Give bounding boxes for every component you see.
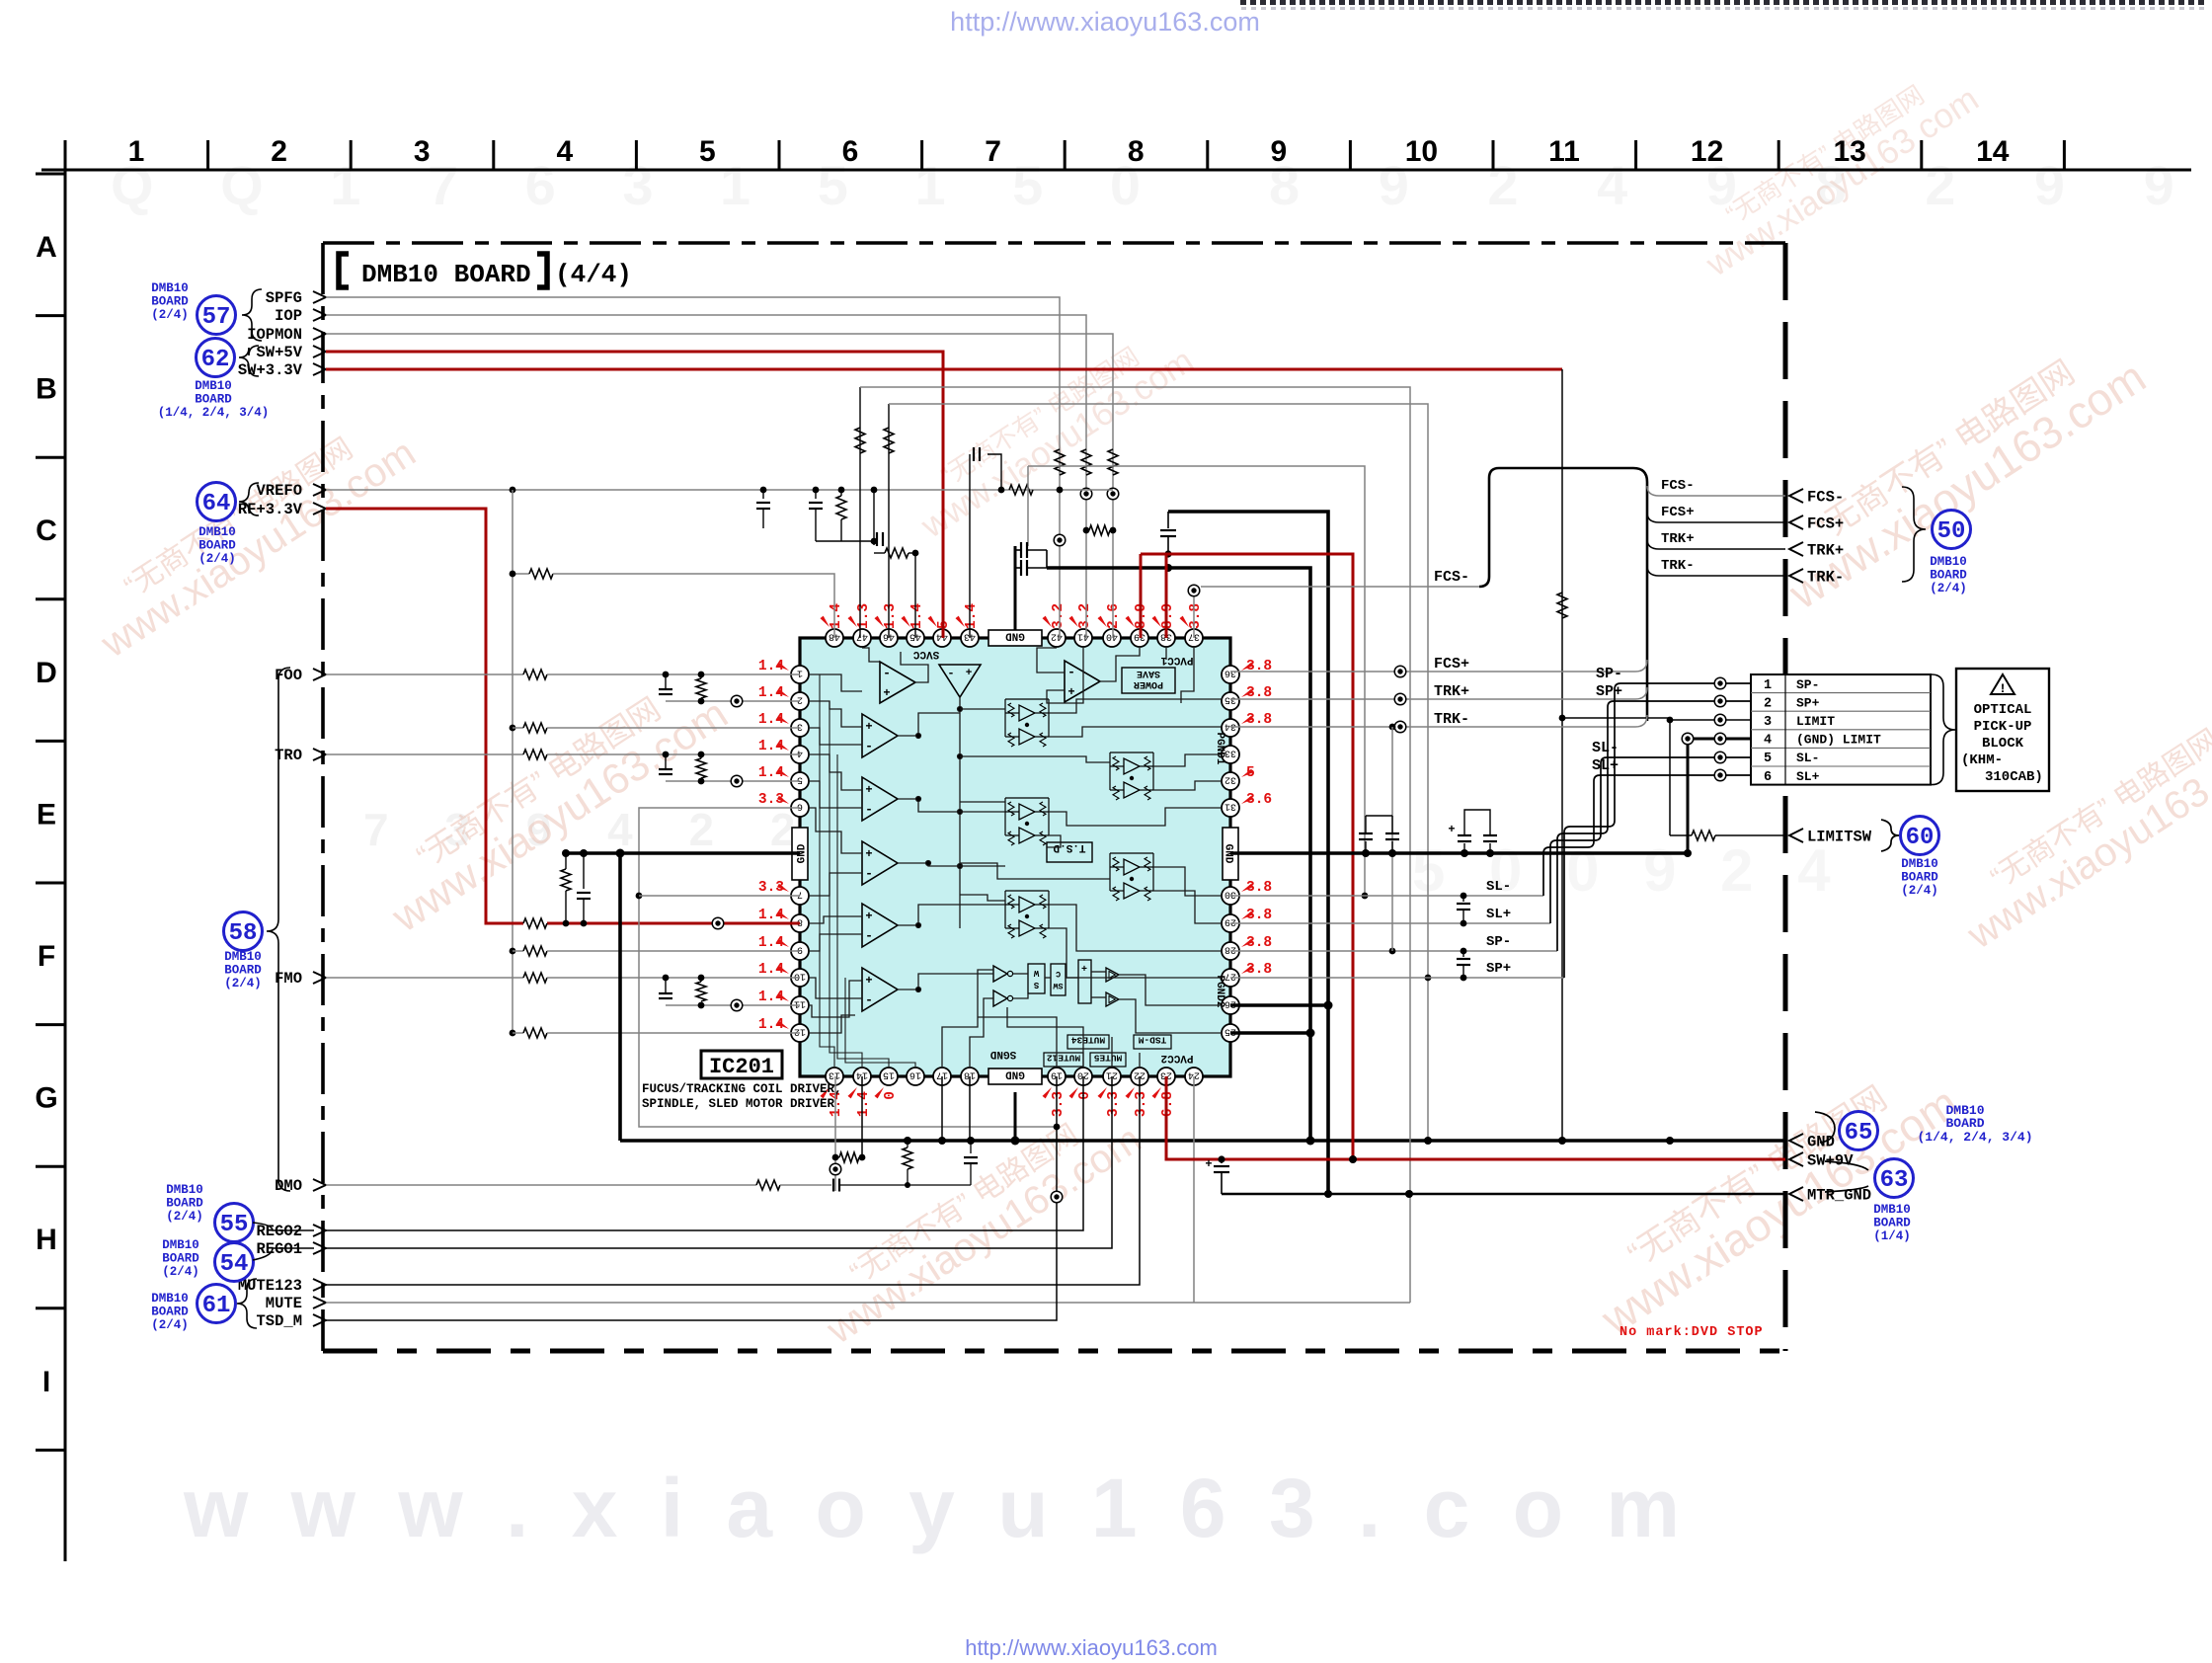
svg-text:A: A	[36, 231, 57, 264]
svg-text:5 0 0 9 2 4: 5 0 0 9 2 4	[1412, 837, 1845, 904]
svg-text:1: 1	[128, 135, 145, 168]
svg-text:0: 0	[883, 1091, 899, 1100]
svg-text:16: 16	[909, 1069, 921, 1080]
svg-text:PGND1: PGND1	[1214, 732, 1225, 764]
pin 15	[880, 1068, 898, 1085]
svg-text:PGND2: PGND2	[1214, 975, 1225, 1007]
svg-text:TRK-: TRK-	[1434, 711, 1469, 728]
svg-text:(2/4): (2/4)	[162, 1265, 199, 1279]
svg-text:SP+: SP+	[1486, 961, 1511, 977]
heavy bus y518	[1168, 512, 1328, 1194]
svg-text:2: 2	[1764, 696, 1772, 711]
pin 10	[791, 969, 809, 987]
svg-text:0: 0	[1077, 1091, 1093, 1100]
board outline DMB10 BOARD dash-dot border	[323, 243, 1785, 1351]
svg-text:6: 6	[797, 801, 803, 812]
svg-text:60: 60	[1906, 825, 1935, 851]
switch blocks SW	[1028, 960, 1091, 1003]
svg-text:SL-: SL-	[1486, 879, 1511, 895]
svg-text:IC201: IC201	[709, 1055, 774, 1079]
wire y409 run	[889, 404, 1428, 1141]
svg-text:58: 58	[229, 920, 258, 947]
pin 34	[1222, 719, 1239, 737]
pin 44	[933, 629, 951, 647]
inverter gates	[993, 966, 1013, 1006]
via pin40 net	[1107, 488, 1119, 500]
connector 65 DMB10 BOARD (1/4,2/4,3/4)	[1815, 1103, 2033, 1150]
svg-text:5: 5	[1764, 752, 1772, 766]
pin 26	[1222, 996, 1239, 1014]
connector 60 DMB10 BOARD (2/4)	[1881, 817, 1939, 899]
resistor R-spfg	[1055, 449, 1065, 475]
svg-text:SW+5V: SW+5V	[256, 344, 302, 361]
wire VREFO	[326, 489, 1113, 491]
capacitor C-v1	[762, 490, 764, 499]
capacitor C-b1	[970, 1141, 972, 1153]
svg-text:REGO2: REGO2	[256, 1223, 302, 1240]
connector 54 DMB10 BOARD (2/4)	[162, 1238, 314, 1282]
ground bus left heavy	[566, 851, 800, 855]
capacitor C-sl	[1462, 896, 1464, 902]
pin 21	[1103, 1068, 1121, 1085]
wire TRO to pin 4	[326, 753, 523, 755]
capacitor C-r1	[1365, 841, 1367, 853]
svg-text:4: 4	[1764, 734, 1772, 749]
pin 31	[1222, 799, 1239, 817]
wire VREFO drop	[512, 490, 513, 1033]
svg-text:+: +	[865, 847, 872, 861]
svg-text:28: 28	[1224, 944, 1236, 955]
capacitor C-gnd1	[583, 853, 585, 889]
wire FCS- branch to border	[1647, 486, 1785, 496]
svg-text:DMB10: DMB10	[1930, 555, 1967, 569]
wire pin18 down	[969, 1076, 971, 1141]
svg-text:(2/4): (2/4)	[166, 1210, 203, 1224]
svg-text:+: +	[1081, 965, 1087, 976]
pin 37	[1185, 629, 1203, 647]
wire pin6 loop	[639, 808, 1057, 1127]
resistor R-13-14	[839, 1152, 859, 1162]
wire pin3 tap	[513, 727, 523, 729]
wire TRK+ branch to border	[1647, 539, 1785, 549]
resistor R-47	[855, 428, 865, 453]
svg-text:DMB10: DMB10	[195, 379, 232, 393]
svg-text:(2/4): (2/4)	[151, 1318, 189, 1332]
svg-text:C: C	[36, 515, 57, 547]
svg-text:TSD-M: TSD-M	[1138, 1035, 1166, 1046]
wire pin45 riser	[914, 553, 916, 638]
mute block TSD-M	[1134, 1035, 1171, 1049]
svg-text:6: 6	[842, 135, 859, 168]
svg-text:1: 1	[1764, 678, 1772, 693]
svg-text:FCS-: FCS-	[1434, 569, 1469, 586]
svg-text:10: 10	[794, 971, 806, 982]
svg-text:BOARD: BOARD	[198, 539, 236, 553]
op-amp comparator center	[939, 665, 981, 697]
svg-text:BLOCK: BLOCK	[1982, 736, 2024, 752]
pin 30	[1222, 887, 1239, 905]
svg-text:6.8: 6.8	[1160, 1091, 1176, 1117]
svg-text:1.4: 1.4	[909, 603, 925, 629]
svg-text:(2/4): (2/4)	[1930, 582, 1967, 595]
wire FMO to pin 10	[326, 977, 523, 979]
pin 40	[1103, 629, 1121, 647]
svg-text:(2/4): (2/4)	[151, 308, 189, 322]
pin 46	[880, 629, 898, 647]
svg-text:10: 10	[1405, 135, 1438, 168]
svg-text:LIMIT: LIMIT	[1796, 714, 1835, 729]
svg-text:DMB10: DMB10	[166, 1183, 203, 1197]
ground pin box left	[792, 828, 808, 880]
svg-text:1.3: 1.3	[883, 603, 899, 629]
connector 64 DMB10 BOARD (2/4)	[197, 483, 260, 567]
via pin37	[1188, 585, 1200, 596]
ground pin box right	[1223, 828, 1238, 880]
svg-text:IOP: IOP	[275, 307, 302, 325]
pin 47	[853, 629, 871, 647]
svg-text:13: 13	[1834, 135, 1866, 168]
svg-text:3.3: 3.3	[1051, 1091, 1066, 1117]
svg-text:w w w . x i a o y u 1 6 3 . c: w w w . x i a o y u 1 6 3 . c o m	[183, 1462, 1690, 1554]
svg-text:DMB10: DMB10	[1901, 857, 1938, 871]
capacitor C-v2	[815, 490, 817, 499]
svg-text:MUTE12: MUTE12	[1047, 1053, 1081, 1064]
pin 18	[961, 1068, 979, 1085]
svg-text:MUTE: MUTE	[266, 1295, 302, 1312]
connector 62 DMB10 BOARD (1/4,2/4,3/4)	[158, 339, 270, 421]
svg-text:E: E	[37, 798, 56, 831]
svg-text:40: 40	[1106, 631, 1118, 642]
wire TRK+ pin35	[1230, 698, 1635, 700]
svg-text:3.3: 3.3	[1134, 1091, 1149, 1117]
op-amp A7 power amp	[1065, 661, 1100, 702]
svg-text:63: 63	[1880, 1167, 1909, 1194]
svg-text:PICK-UP: PICK-UP	[1974, 719, 2032, 735]
svg-text:1.4: 1.4	[964, 603, 980, 629]
wire pin37 via	[1193, 591, 1195, 638]
svg-text:+: +	[1205, 1157, 1212, 1171]
svg-text:2: 2	[271, 135, 287, 168]
svg-text:34: 34	[1224, 721, 1236, 732]
resistor R-b1	[903, 1148, 912, 1169]
svg-text:15: 15	[883, 1069, 895, 1080]
svg-text:DMB10: DMB10	[162, 1238, 199, 1252]
wire DMO to pin 13	[326, 1184, 756, 1186]
svg-text:SP+: SP+	[1596, 683, 1622, 700]
wire FCS+ branch to border	[1647, 513, 1785, 522]
wire pin12 tap	[513, 1032, 523, 1034]
svg-text:No mark:DVD STOP: No mark:DVD STOP	[1619, 1325, 1764, 1340]
capacitor C-mtr electrolytic	[1221, 1159, 1223, 1163]
pin 24	[1185, 1068, 1203, 1085]
ruler vertical scale	[35, 143, 65, 1561]
svg-text:GND: GND	[1005, 630, 1025, 642]
pin 33	[1222, 746, 1239, 763]
connector 57 DMB10 BOARD (2/4)	[151, 281, 262, 341]
svg-text:25: 25	[1224, 1026, 1236, 1037]
resistor R-v5	[885, 548, 908, 558]
via FCS+	[1394, 666, 1406, 677]
svg-text:3: 3	[414, 135, 431, 168]
via LIMIT	[1714, 714, 1726, 726]
svg-text:3: 3	[1764, 715, 1772, 730]
wire pin26 heavy	[1230, 1003, 1328, 1007]
wire pin9 tap	[513, 950, 523, 952]
wire pin46 riser	[888, 404, 890, 638]
svg-text:(4/4): (4/4)	[555, 260, 632, 289]
svg-text:DMB10: DMB10	[1873, 1203, 1911, 1217]
pin voltage labels bottom	[821, 1087, 1177, 1117]
driver cluster D4	[1113, 857, 1119, 871]
wire TRK- branch to border	[1647, 566, 1785, 576]
via TRK+	[1394, 693, 1406, 705]
connector 50 DMB10 BOARD (2/4)	[1902, 487, 1971, 595]
pin 28	[1222, 942, 1239, 960]
pin 39	[1131, 629, 1148, 647]
svg-text:SW+9V: SW+9V	[1807, 1152, 1854, 1170]
pin 43	[961, 629, 979, 647]
svg-text:SW+3.3V: SW+3.3V	[238, 361, 303, 379]
connector 58 DMB10 BOARD (2/4)	[224, 668, 291, 1191]
pin voltage labels right	[1241, 659, 1272, 978]
resistor R-v3	[836, 496, 846, 519]
svg-text:I: I	[42, 1366, 50, 1398]
svg-text:+: +	[1448, 823, 1455, 836]
svg-text:64: 64	[202, 491, 231, 517]
wire pin43 stub	[969, 454, 971, 638]
driver cluster D2	[1113, 756, 1119, 770]
wire TSD_M to pin 19	[326, 1076, 1057, 1320]
wire PVCC red pins 38 39	[1141, 554, 1353, 1159]
svg-text:-: -	[947, 667, 954, 680]
svg-text:BOARD: BOARD	[1930, 569, 1967, 583]
svg-text:31: 31	[1224, 801, 1236, 812]
wire GND LIMIT row4 to ground bus	[1688, 739, 1751, 853]
svg-text:(1/4, 2/4, 3/4): (1/4, 2/4, 3/4)	[158, 406, 270, 420]
ground bus bottom heavy	[620, 1139, 1785, 1143]
wire SW+3.3V red	[326, 368, 1562, 371]
svg-text:11: 11	[1548, 135, 1580, 168]
wire SW+3.3V drop	[1561, 369, 1563, 1141]
svg-text:SL+: SL+	[1592, 757, 1619, 774]
svg-text:SL+: SL+	[1486, 907, 1511, 922]
svg-text:SGND: SGND	[989, 1048, 1016, 1060]
via pin42 net	[1054, 534, 1066, 546]
svg-text:42: 42	[1051, 631, 1063, 642]
capacitor C-518	[1167, 512, 1169, 528]
top gnd capacitor pair	[1014, 546, 1017, 630]
capacitor C-sp	[1462, 951, 1464, 957]
svg-text:3.8: 3.8	[1188, 603, 1204, 629]
internal wiring	[808, 648, 1223, 1069]
op-amp A5	[862, 904, 898, 947]
svg-text:FUCUS/TRACKING COIL DRIVER,: FUCUS/TRACKING COIL DRIVER,	[642, 1082, 842, 1096]
svg-text:POWER: POWER	[1134, 678, 1163, 689]
pin 4	[791, 746, 809, 763]
title DMB10 BOARD (4/4)	[339, 254, 349, 287]
svg-text:SP-: SP-	[1796, 677, 1819, 692]
svg-text:7: 7	[797, 889, 803, 900]
svg-text:(2/4): (2/4)	[224, 977, 262, 990]
pin 22	[1131, 1068, 1148, 1085]
svg-text:14: 14	[1976, 135, 2010, 168]
pin 48	[826, 629, 843, 647]
svg-text:MUTE5: MUTE5	[1093, 1053, 1122, 1064]
svg-text:2.6: 2.6	[1106, 603, 1122, 629]
wire SPFG to pin 42	[326, 297, 1060, 638]
svg-text:12: 12	[794, 1026, 806, 1037]
svg-text:(1/4): (1/4)	[1873, 1229, 1911, 1243]
svg-text:61: 61	[202, 1293, 231, 1319]
resistor R-41-40	[1089, 525, 1110, 535]
svg-text:+: +	[1067, 685, 1074, 699]
svg-text:12: 12	[1691, 135, 1723, 168]
svg-text:BOARD: BOARD	[1901, 871, 1938, 885]
pin 14	[853, 1068, 871, 1085]
svg-text:SP+: SP+	[1796, 695, 1820, 710]
via TSD	[1051, 1191, 1063, 1203]
svg-text:SPINDLE, SLED MOTOR DRIVER: SPINDLE, SLED MOTOR DRIVER	[642, 1097, 835, 1111]
svg-text:2: 2	[797, 694, 803, 705]
svg-text:50: 50	[1937, 518, 1966, 545]
svg-text:BOARD: BOARD	[1873, 1217, 1911, 1230]
capacitor/resistor pin1-2 network	[665, 674, 667, 689]
resistor R-46	[884, 428, 894, 453]
svg-text:65: 65	[1845, 1120, 1873, 1147]
svg-text:55: 55	[220, 1212, 249, 1238]
svg-text:REGO1: REGO1	[256, 1240, 302, 1258]
svg-text:8: 8	[1128, 135, 1145, 168]
svg-text:BOARD: BOARD	[224, 964, 262, 978]
op-amp A4	[862, 841, 898, 885]
svg-text:BOARD: BOARD	[151, 1306, 189, 1319]
wire REGO1 to pin 21	[326, 1076, 1112, 1248]
pin 2	[791, 692, 809, 710]
svg-text:BOARD: BOARD	[166, 1197, 203, 1211]
svg-text:11: 11	[794, 998, 806, 1009]
svg-text:(2/4): (2/4)	[198, 552, 236, 566]
svg-text:-: -	[865, 992, 873, 1007]
wire SP+ pin27	[1230, 977, 1564, 979]
pin 25	[1222, 1024, 1239, 1042]
wire TRK- pin34	[1230, 726, 1635, 728]
svg-text:SL-: SL-	[1796, 751, 1819, 765]
svg-text:1.3: 1.3	[856, 603, 872, 629]
driver cluster D5	[1008, 895, 1014, 909]
wire FCS- mid	[1201, 586, 1479, 588]
svg-text:W: W	[1033, 968, 1039, 978]
pin 16	[907, 1068, 924, 1085]
via pin41 net	[1080, 488, 1092, 500]
resistor R-limit1	[1557, 593, 1567, 618]
wire MUTE to pin 24	[326, 1302, 1410, 1304]
driver cluster D3	[1008, 802, 1014, 816]
svg-text:GND: GND	[1005, 1069, 1025, 1080]
pin 27	[1222, 969, 1239, 987]
wire SL- pin30	[1230, 895, 1543, 897]
svg-text:1.4: 1.4	[829, 603, 844, 629]
wire pin48 net	[513, 573, 529, 575]
svg-text:BOARD: BOARD	[1945, 1116, 1984, 1131]
resistor R-limitsw	[1670, 834, 1692, 836]
svg-text:32: 32	[1224, 774, 1236, 785]
ground pin box bottom	[988, 1069, 1042, 1084]
svg-text:FCS+: FCS+	[1807, 515, 1844, 533]
pin 42	[1048, 629, 1066, 647]
svg-text:3.2: 3.2	[1051, 603, 1066, 629]
wire REGO2 to pin 20	[326, 1076, 1083, 1230]
svg-text:+: +	[865, 910, 872, 923]
svg-text:SP-: SP-	[1596, 666, 1622, 682]
via RF net	[712, 917, 724, 929]
resistor R-rf	[523, 918, 547, 928]
power save block	[1122, 668, 1175, 693]
resistor R-iop	[1081, 449, 1091, 475]
wire pin7	[639, 895, 800, 897]
svg-text:VREFO: VREFO	[256, 482, 302, 500]
capacitor C-r4	[1489, 843, 1491, 853]
svg-text:+: +	[865, 783, 872, 797]
svg-text:D: D	[36, 657, 57, 689]
pin 5	[791, 772, 809, 790]
mute block MUTE5	[1090, 1053, 1126, 1067]
svg-text:8: 8	[797, 916, 803, 927]
svg-text:9: 9	[1270, 135, 1287, 168]
wire IOPMON to pin 40	[326, 334, 1113, 638]
pin 8	[791, 914, 809, 932]
svg-text:SVCC: SVCC	[912, 648, 939, 660]
svg-text:310CAB): 310CAB)	[1985, 769, 2043, 785]
wire y472 run	[1028, 466, 1365, 896]
svg-text:+: +	[865, 974, 872, 988]
wire pin17 down	[941, 1076, 943, 1141]
right ground bus heavy	[1230, 851, 1688, 855]
svg-text:-: -	[865, 928, 873, 943]
pin 19	[1048, 1068, 1066, 1085]
svg-text:-: -	[1067, 665, 1075, 679]
svg-text:62: 62	[201, 347, 230, 373]
svg-text:36: 36	[1224, 668, 1236, 678]
connector 55 DMB10 BOARD (2/4)	[166, 1183, 314, 1242]
wire LIMIT row	[1670, 719, 1751, 721]
wire SL+ pin29	[1230, 922, 1550, 924]
svg-text:-: -	[865, 739, 873, 753]
svg-text:!: !	[1999, 681, 2007, 696]
op-amp A3	[862, 777, 898, 821]
via TRK-	[1394, 721, 1406, 733]
capacitor C-v4	[873, 490, 875, 533]
svg-text:+: +	[883, 686, 890, 700]
svg-text:MTR_GND: MTR_GND	[1807, 1187, 1871, 1205]
svg-text:IOPMON: IOPMON	[247, 326, 302, 344]
pin 45	[907, 629, 924, 647]
svg-text:(GND) LIMIT: (GND) LIMIT	[1796, 733, 1881, 748]
connector table CN optical pick-up pins 1-6	[1751, 674, 1955, 785]
pin 7	[791, 887, 809, 905]
driver cluster D1	[1008, 703, 1014, 717]
wire SP- pin28	[1230, 950, 1557, 952]
resistor R-vrefo	[1009, 485, 1033, 495]
capacitor/resistor pin4-5 network	[665, 754, 667, 769]
svg-text:DMB10: DMB10	[151, 281, 189, 295]
mute block MUTE12	[1044, 1053, 1083, 1067]
wire IOP to pin 41	[326, 315, 1086, 638]
svg-text:TRK-: TRK-	[1807, 569, 1844, 587]
thermal shutdown block T.S.D	[1047, 841, 1092, 862]
pin 17	[933, 1068, 951, 1085]
svg-text:PVCC2: PVCC2	[1160, 1052, 1193, 1064]
pin 35	[1222, 692, 1239, 710]
